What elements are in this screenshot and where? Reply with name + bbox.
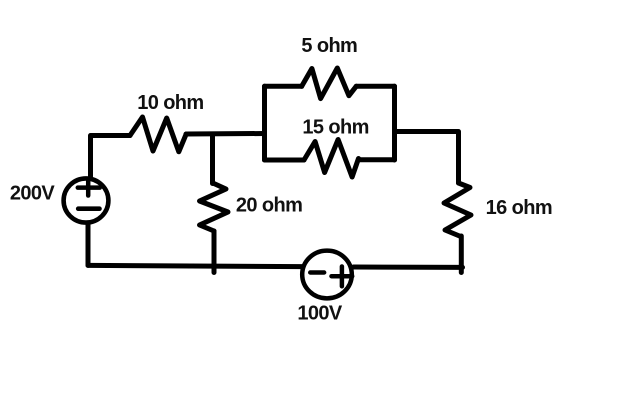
parallel box left edge wire — [262, 86, 267, 160]
svg-text:200V: 200V — [10, 183, 56, 205]
wire from box right node to resistor R4 — [395, 132, 459, 184]
wire bottom-left branch — [265, 158, 305, 163]
V2 plus sign — [332, 267, 353, 287]
voltage source V2 100V circle — [302, 251, 352, 299]
resistor R2 20 ohm zigzag — [200, 183, 229, 231]
parallel box right edge wire — [392, 86, 397, 160]
wire from R1 to parallel box left node — [186, 131, 265, 137]
wire from R2 to bottom rail — [212, 231, 217, 273]
V2 minus sign — [310, 270, 324, 274]
wire bottom rail left segment — [88, 265, 302, 266]
V1 minus sign — [78, 206, 99, 211]
wire V1 bottom lead — [86, 224, 91, 266]
svg-text:15 ohm: 15 ohm — [302, 116, 368, 138]
svg-text:5 ohm: 5 ohm — [301, 35, 357, 57]
wire top-right branch — [356, 84, 394, 89]
wire node A down to resistor R2 — [210, 134, 215, 184]
svg-text:20 ohm: 20 ohm — [236, 195, 302, 217]
voltage source V1 200V circle — [64, 178, 109, 222]
resistor R5 15 ohm zigzag — [304, 140, 359, 178]
svg-text:10 ohm: 10 ohm — [137, 92, 203, 114]
wire bottom-right branch — [359, 157, 395, 162]
wire bottom rail right segment — [354, 265, 463, 270]
resistor R4 16 ohm zigzag — [444, 183, 471, 236]
V1 plus sign — [78, 180, 100, 196]
resistor R3 5 ohm zigzag — [302, 68, 357, 99]
wire top-left branch — [265, 84, 302, 89]
wire from R4 to bottom rail — [459, 236, 464, 273]
resistor R1 10 ohm zigzag — [130, 117, 186, 152]
svg-text:16 ohm: 16 ohm — [486, 197, 552, 219]
svg-text:100V: 100V — [297, 303, 343, 325]
wire from V1 top to resistor R1 — [91, 136, 131, 177]
